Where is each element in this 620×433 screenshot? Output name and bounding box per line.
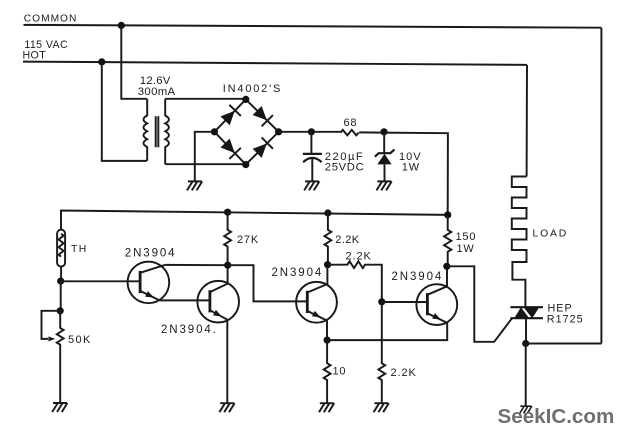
wire HOT drop to transformer primary bottom	[102, 62, 147, 161]
wire Q1 emitter to Q2 base	[160, 299, 210, 301]
svg-text:HOT: HOT	[23, 50, 47, 62]
node zener junction	[380, 128, 387, 135]
node bridge left junction	[211, 128, 218, 135]
triac HEP R1725	[510, 307, 543, 318]
diode D1 top-left	[219, 105, 241, 126]
resistor 2.2K middle horizontal	[328, 261, 382, 301]
node rail junction 2.2K	[324, 209, 331, 216]
svg-text:1W: 1W	[402, 161, 420, 173]
svg-text:2.2K: 2.2K	[346, 250, 372, 262]
wire secondary bottom to bridge	[165, 163, 246, 165]
transistor Q2 2N3904	[197, 281, 239, 323]
wire TH junction to Q1 base	[61, 280, 140, 282]
node bridge bottom junction	[242, 161, 249, 168]
svg-text:LOAD: LOAD	[533, 228, 569, 239]
resistor 27K	[224, 213, 231, 266]
node Q3 emitter junction	[324, 337, 331, 344]
svg-text:TH: TH	[71, 244, 88, 255]
potentiometer 50K	[42, 311, 61, 339]
resistor 68	[341, 130, 359, 135]
resistor 150 1W	[444, 215, 451, 266]
ground resistor 10	[319, 403, 334, 412]
wire Q3 emitter to Q4 emitter	[327, 323, 447, 340]
load resistance element	[512, 177, 527, 307]
wire Q4 collector node to triac gate	[447, 266, 512, 342]
svg-text:2N3904.: 2N3904.	[161, 324, 218, 336]
svg-text:2N3904: 2N3904	[392, 271, 444, 283]
thermistor TH	[57, 230, 65, 267]
ground capacitor	[304, 181, 319, 190]
ground bridge negative	[187, 181, 202, 190]
svg-text:25VDC: 25VDC	[325, 161, 365, 173]
resistor 2.2K upper	[325, 213, 332, 265]
node junction dot on HOT	[98, 58, 105, 65]
ground potentiometer	[52, 403, 67, 412]
wire TH junction down to pot	[60, 281, 62, 311]
wire junction to Q4 base	[382, 301, 428, 303]
wire DC rail horizontal	[61, 211, 448, 230]
diode D3 bottom-left	[219, 137, 241, 158]
node triac MT1 junction	[522, 340, 529, 347]
wire triac MT1 down to ground	[525, 344, 527, 407]
ground zener	[377, 181, 392, 190]
svg-text:COMMON: COMMON	[24, 14, 78, 25]
svg-text:HEP: HEP	[548, 302, 573, 314]
node pot top junction	[57, 307, 64, 314]
resistor 10	[324, 340, 331, 403]
svg-text:2N3904: 2N3904	[272, 267, 324, 279]
node bridge top junction	[242, 96, 249, 103]
node Q4 base junction	[378, 298, 385, 305]
wire HOT top rail	[23, 62, 527, 65]
transistor Q4 2N3904	[416, 284, 457, 325]
transformer T1 primary winding	[144, 99, 148, 161]
node junction dot on COMMON	[118, 22, 125, 29]
svg-text:150: 150	[456, 231, 477, 243]
resistor 2.2K lower	[378, 302, 385, 403]
wire secondary top to bridge	[165, 98, 246, 100]
wire Q2 collector node to Q3 base	[228, 265, 308, 301]
svg-text:50K: 50K	[68, 334, 92, 346]
wire COMMON right border down	[600, 28, 602, 344]
transformer T1 core	[156, 116, 159, 147]
ground Q2 emitter	[219, 403, 234, 412]
wire Q1 collector to node	[165, 264, 228, 266]
svg-text:1W: 1W	[457, 243, 475, 255]
diode bridge frame	[214, 99, 278, 164]
svg-text:2.2K: 2.2K	[391, 367, 417, 379]
diode D2 top-right	[251, 105, 272, 126]
wire COMMON top rail	[24, 25, 602, 28]
node Q4 collector junction	[443, 263, 450, 270]
transistor Q1 2N3904	[128, 262, 170, 304]
svg-text:R1725: R1725	[547, 314, 584, 326]
svg-text:2.2K: 2.2K	[335, 234, 359, 246]
diode D4 bottom-right	[251, 137, 272, 158]
wire HOT drop to load	[526, 65, 528, 177]
ground 2.2K lower	[374, 403, 389, 412]
svg-text:68: 68	[344, 117, 358, 129]
node capacitor junction	[308, 128, 315, 135]
wire COMMON drop to transformer primary top	[121, 25, 147, 98]
wire triac MT1 to right border	[526, 343, 602, 345]
node rail junction 27K	[224, 209, 231, 216]
node Q3 collector junction	[324, 261, 331, 268]
zener diode CR1 10V 1W	[383, 132, 385, 153]
node bridge right junction	[275, 128, 282, 135]
svg-text:SeekIC.com: SeekIC.com	[498, 405, 615, 428]
transformer T1 secondary winding	[165, 99, 169, 164]
wire bridge positive to 68 ohm	[279, 131, 341, 133]
node Q1 collector junction	[224, 262, 231, 269]
ground triac	[520, 406, 532, 413]
node rail junction 150	[444, 211, 451, 218]
svg-text:300mA: 300mA	[138, 86, 176, 98]
wire bridge negative to ground	[195, 132, 215, 182]
svg-text:2N3904: 2N3904	[125, 248, 177, 260]
transistor Q3 2N3904	[296, 282, 337, 323]
svg-text:10: 10	[333, 366, 347, 378]
wire 68 to corner and down to rail	[359, 132, 448, 215]
node TH bottom junction	[57, 278, 64, 285]
svg-text:27K: 27K	[237, 234, 259, 246]
capacitor C1 220uF	[310, 132, 312, 154]
svg-text:IN4002'S: IN4002'S	[223, 83, 282, 95]
